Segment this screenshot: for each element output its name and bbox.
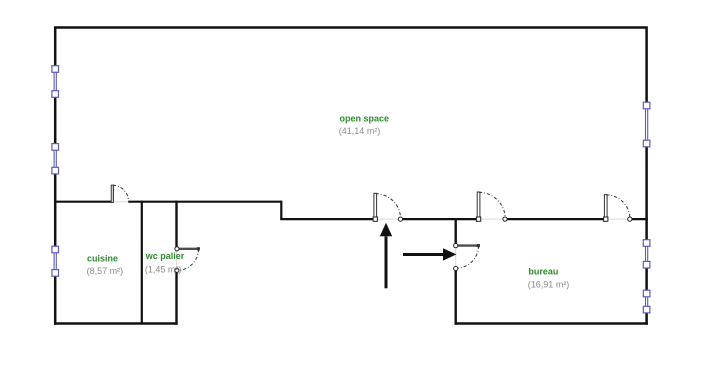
svg-text:(41,14 m²): (41,14 m²) [339, 126, 381, 136]
wall bureau left upper [455, 218, 457, 246]
door 4: leaf [604, 195, 607, 220]
threshold entrance door [375, 218, 400, 220]
wall corridor lower segment 3 [505, 218, 606, 220]
window W3: double lines [53, 250, 55, 273]
door bureau: leaf end cap [477, 244, 480, 247]
window W6 right wall: mask [644, 291, 649, 314]
door bureau: hinge circle [454, 244, 458, 248]
window W5 right wall: mask [644, 240, 649, 268]
svg-text:(16,91 m²): (16,91 m²) [528, 279, 570, 289]
door cuisine: leaf [111, 185, 113, 203]
wall step between corridor segments [280, 201, 282, 220]
threshold cuisine door [112, 201, 128, 203]
door 3: leaf [477, 192, 480, 219]
door wc: leaf end cap [197, 247, 200, 250]
svg-text:wc palier: wc palier [145, 251, 185, 261]
door entrance: leaf [374, 193, 377, 219]
window W6: double lines [645, 294, 647, 310]
door bureau: swing arc [456, 246, 479, 269]
wall corridor lower segment 1 [280, 218, 375, 220]
wall corridor lower segment 2 [400, 218, 478, 220]
arrow entrance right [443, 248, 456, 260]
door bureau: leaf [457, 244, 479, 246]
door 3: end circle [503, 217, 507, 221]
door 4: end circle [628, 217, 632, 221]
door cuisine: swing arc [113, 185, 129, 201]
door bureau: end circle [454, 266, 458, 270]
threshold bureau door [455, 246, 457, 269]
wall wc right lower [175, 270, 177, 324]
window W1: end squares [52, 66, 59, 73]
svg-text:(1,45 m²): (1,45 m²) [145, 265, 182, 275]
door 4: hinge square [604, 217, 608, 221]
wall wc right upper [175, 201, 177, 249]
door 3: hinge square [476, 217, 480, 221]
svg-text:open space: open space [340, 114, 390, 124]
door wc: swing arc [177, 249, 199, 271]
arrow entrance up [380, 223, 392, 237]
svg-text:cuisine: cuisine [87, 253, 118, 263]
svg-text:bureau: bureau [528, 267, 558, 277]
window W4 right wall: mask [644, 103, 649, 148]
door wc: leaf [178, 248, 199, 250]
wall bottom of bureau [455, 322, 648, 325]
door wc: hinge circle [175, 247, 179, 251]
window W5: end squares [643, 240, 650, 247]
window W6: end squares [643, 290, 650, 297]
window W5: double lines [645, 243, 647, 265]
wall corridor upper segment left of cuisine door [54, 201, 112, 203]
window W4: double lines [645, 106, 647, 144]
wall corridor lower segment 4 [630, 218, 648, 220]
threshold door 4 [606, 218, 630, 220]
door 3: swing arc [479, 192, 505, 218]
wall bottom of cuisine/wc block [54, 322, 178, 325]
threshold door 3 [479, 218, 506, 220]
wall bureau left lower [455, 269, 457, 325]
door 4: swing arc [606, 195, 630, 219]
wall divider cuisine/wc [141, 201, 143, 324]
window W2: double lines [53, 147, 55, 171]
window W1 left wall: mask [53, 66, 58, 97]
door wc: end circle [175, 268, 179, 272]
outer wall (top, left, right) [55, 28, 646, 325]
svg-text:(8,57 m²): (8,57 m²) [87, 266, 124, 276]
door entrance: swing arc [376, 194, 401, 219]
door entrance: end circle [398, 217, 402, 221]
threshold wc door [176, 249, 178, 270]
wall corridor upper segment right of cuisine door [128, 201, 281, 203]
window W1: double lines [53, 69, 55, 94]
window W4: end squares [643, 102, 650, 109]
window W3: end squares [52, 246, 59, 253]
window W2: end squares [52, 144, 59, 151]
window W2 left wall: mask [53, 144, 58, 174]
window W3 left wall: mask [53, 247, 58, 277]
door entrance: hinge square [373, 217, 377, 221]
